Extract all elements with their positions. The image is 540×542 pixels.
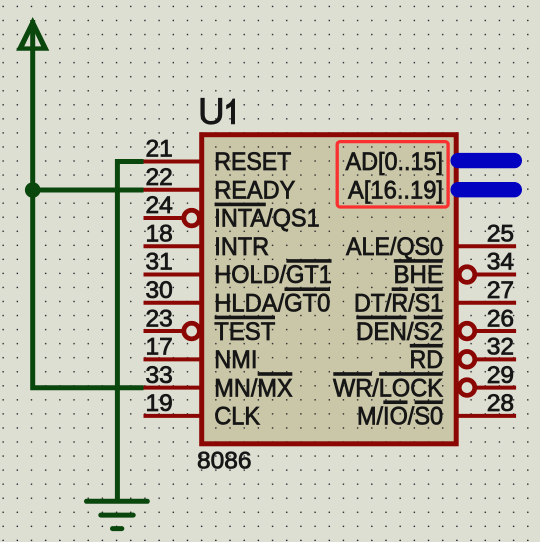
svg-text:WR/LOCK: WR/LOCK [333,374,443,402]
pin name CLK [214,403,260,431]
svg-text:34: 34 [487,249,514,276]
pin name TEST [214,316,275,346]
svg-text:BHE: BHE [394,261,444,289]
svg-text:17: 17 [146,334,173,361]
wire pin 21 RESET to ground [117,162,143,502]
svg-text:23: 23 [146,305,173,332]
svg-text:32: 32 [487,334,514,361]
pin name M/IO/S0 [357,400,443,430]
pin 26 (right, row 7) [459,305,516,339]
IC U1 (8086) body fill [202,135,457,444]
svg-text:22: 22 [146,164,173,191]
pin name HLDA/GT0 [214,287,330,317]
pin 22 (left, row 2) [144,164,202,191]
svg-text:HOLD/GT1: HOLD/GT1 [214,261,332,289]
pin 21 (left, row 1) [144,136,202,163]
pin name BHE [394,259,444,289]
pin name MN/MX [214,372,293,402]
pin 34 (right, row 5) [459,249,516,283]
svg-text:31: 31 [146,249,173,276]
svg-text:28: 28 [487,390,514,417]
svg-text:AD[0..15]: AD[0..15] [346,148,444,176]
wire junction to pin 22 READY [33,188,144,193]
pin 23 (left, row 7) [144,305,200,339]
svg-text:TEST: TEST [214,318,275,346]
bus pin name AD[0..15] [346,148,444,176]
pin 31 (left, row 5) [144,249,202,276]
svg-text:HLDA/GT0: HLDA/GT0 [214,290,330,318]
svg-text:19: 19 [146,390,173,417]
svg-text:DT/R/S1: DT/R/S1 [354,290,443,318]
bus pin name A[16..19] [348,176,443,204]
svg-text:ALE/QS0: ALE/QS0 [346,233,443,261]
pin name ALE/QS0 [346,233,443,261]
pin name HOLD/GT1 [214,259,332,289]
svg-text:21: 21 [146,136,173,163]
power symbol VCC arrow [16,17,49,51]
wire VCC vertical + to pin 33 MN/MX [33,20,144,388]
pin 32 (right, row 8) [459,334,516,368]
svg-text:INTR: INTR [214,233,269,261]
svg-text:8086: 8086 [197,448,252,475]
svg-text:RESET: RESET [214,148,291,176]
svg-text:30: 30 [146,277,173,304]
svg-text:M/IO/S0: M/IO/S0 [357,403,443,431]
highlight box around bus pin names [337,142,448,207]
ground symbol [87,501,148,528]
svg-text:25: 25 [487,220,514,247]
pin name DEN/S2 [356,316,443,346]
bus A[16..19] stub [451,182,523,197]
pin 33 (left, row 9) [144,362,202,389]
svg-text:MN/MX: MN/MX [214,374,293,402]
pin name RESET [214,148,291,176]
svg-text:33: 33 [146,362,173,389]
pin 17 (left, row 8) [144,334,202,361]
svg-text:INTA/QS1: INTA/QS1 [214,205,319,233]
svg-text:RD: RD [410,346,444,374]
pin name INTR [214,233,269,261]
pin name WR/LOCK [333,372,443,402]
IC U1 (8086) body outline [202,135,457,444]
svg-text:24: 24 [146,192,173,219]
pin name INTA/QS1 [214,203,319,233]
svg-text:A[16..19]: A[16..19] [348,176,443,204]
pin 30 (left, row 6) [144,277,202,304]
pin name DT/R/S1 [354,287,443,317]
pin 18 (left, row 4) [144,220,202,247]
svg-text:U: U [198,91,225,132]
pin 24 (left, row 3) [144,192,200,226]
refdes U1 [198,91,235,132]
svg-text:29: 29 [487,362,514,389]
pin name NMI [214,346,257,374]
pin name READY [214,176,295,204]
pin 28 (right, row 10) [457,390,516,417]
svg-text:CLK: CLK [214,403,260,431]
pin 19 (left, row 10) [144,390,202,417]
svg-text:18: 18 [146,220,173,247]
pin 27 (right, row 6) [457,277,516,304]
junction dot [25,182,41,198]
svg-text:READY: READY [214,176,295,204]
svg-text:26: 26 [487,305,514,332]
svg-text:NMI: NMI [214,346,257,374]
bus AD[0..15] stub [451,153,523,168]
svg-text:27: 27 [487,277,514,304]
svg-text:DEN/S2: DEN/S2 [356,318,443,346]
pin 25 (right, row 4) [457,220,516,247]
pin name RD [410,344,444,374]
pin 29 (right, row 9) [459,362,516,396]
